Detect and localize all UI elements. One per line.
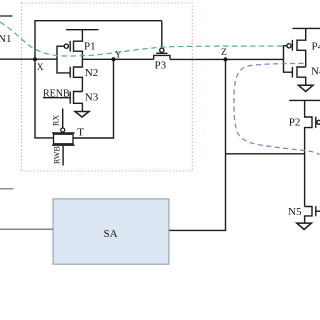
wire right inverter input bracket [284, 46, 293, 72]
svg-text:T: T [77, 127, 84, 139]
wire X input (left to inverter input) [0, 58, 57, 60]
VDD bar for P1 [66, 29, 99, 31]
transistor P1 [64, 30, 82, 60]
svg-text:RX: RX [52, 115, 61, 126]
annotation purple dashed signal path [234, 63, 320, 154]
wire X net: down to switch T left terminal [35, 59, 53, 138]
wire RENB to N3 gate [43, 97, 70, 99]
svg-text:N1: N1 [0, 33, 11, 45]
wire (top-left stub) [0, 15, 13, 17]
annotation green dashed signal path [0, 22, 286, 56]
svg-text:P2: P2 [289, 117, 301, 129]
switch T gate bubble [61, 128, 65, 132]
svg-text:N2: N2 [85, 67, 98, 79]
svg-text:N4: N4 [311, 66, 320, 78]
transistor P2 [305, 100, 320, 206]
ground (under N3) [75, 112, 89, 118]
transistor N5 [305, 206, 320, 223]
VDD bar for P4 [293, 27, 320, 29]
transistor N4 [292, 67, 305, 85]
ground (under N4) [298, 85, 313, 91]
node Z [224, 57, 228, 61]
svg-text:P1: P1 [84, 40, 96, 52]
transistor N3 [70, 91, 82, 111]
switch T bottom plate [52, 144, 75, 146]
switch T top gate stub [62, 109, 64, 128]
wire X net: up and along top rail to P3 gate [35, 21, 162, 60]
ground (under N5) [297, 223, 312, 229]
transistor P3 (pass gate) [154, 21, 170, 60]
wire Y down to switch T right terminal [73, 59, 113, 138]
svg-text:SA: SA [104, 228, 118, 240]
wire Z down to SA right side [169, 59, 226, 230]
transistor N2 [70, 59, 82, 91]
switch T body [54, 134, 74, 144]
dashed highlight box (red) [22, 3, 193, 171]
switch T bottom stub [62, 146, 64, 166]
svg-text:N3: N3 [85, 91, 99, 103]
svg-text:N5: N5 [288, 206, 302, 218]
svg-text:P3: P3 [155, 59, 167, 71]
wire Z branch to P2/N5 node [226, 153, 305, 155]
svg-text:P4: P4 [312, 41, 320, 53]
wire P3 to right inverter input [170, 58, 284, 60]
svg-text:RWB: RWB [53, 146, 62, 164]
wire inverter input bracket [57, 46, 70, 73]
svg-text:X: X [37, 63, 44, 73]
wire (left stub to SA, gray) [0, 188, 14, 190]
switch T top plate [52, 132, 75, 134]
VDD bar for P2 [289, 99, 320, 101]
transistor P4 [287, 28, 306, 67]
wire inverter output to P3 [82, 58, 153, 60]
sense amplifier SA box [53, 199, 169, 264]
node X [33, 57, 37, 61]
node Y [112, 57, 116, 61]
wire SA left input [0, 228, 53, 230]
svg-text:Z: Z [221, 48, 227, 58]
